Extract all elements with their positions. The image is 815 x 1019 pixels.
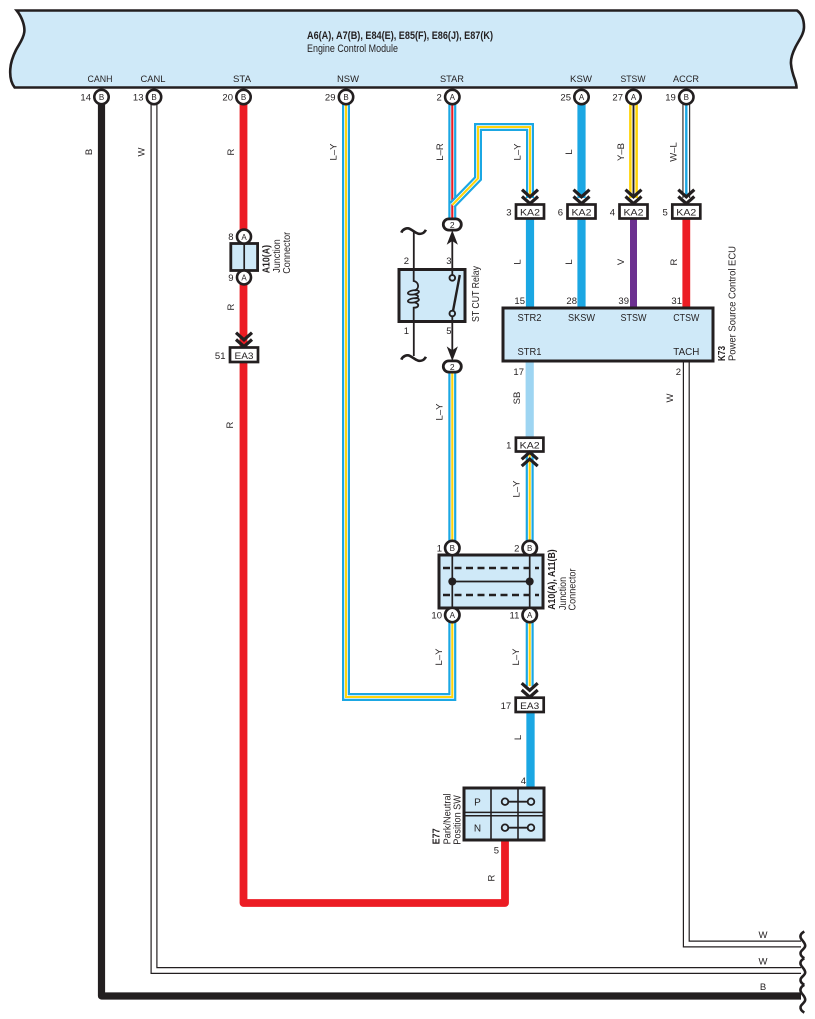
svg-text:A: A bbox=[450, 611, 456, 620]
chevrons above 17 EA3 bbox=[522, 683, 538, 697]
pin circle 9 A bbox=[228, 270, 251, 284]
break squiggle bottom bbox=[401, 355, 426, 360]
svg-text:EA3: EA3 bbox=[520, 701, 539, 712]
K73 Power Source Control ECU box bbox=[503, 308, 713, 361]
ECM pin circle 2 A bbox=[437, 90, 460, 104]
ECM pin circle 13 B bbox=[133, 90, 161, 104]
chevrons above 5 KA2 bbox=[678, 190, 694, 204]
relay switch blade bbox=[453, 275, 460, 311]
relay contact circle bottom bbox=[450, 311, 456, 317]
svg-text:KA2: KA2 bbox=[520, 208, 540, 219]
svg-text:STR1: STR1 bbox=[518, 347, 542, 358]
svg-text:KA2: KA2 bbox=[572, 208, 592, 219]
svg-text:2: 2 bbox=[437, 93, 442, 104]
svg-text:STA: STA bbox=[233, 74, 252, 85]
ECM pin circle 29 B bbox=[325, 90, 353, 104]
wire L 6 KA2 to SKSW bbox=[577, 218, 585, 308]
svg-text:A: A bbox=[241, 274, 247, 283]
svg-text:B: B bbox=[760, 982, 766, 993]
svg-text:Y–B: Y–B bbox=[616, 143, 627, 161]
svg-text:5: 5 bbox=[446, 326, 451, 337]
connector 1 KA2 bbox=[506, 438, 543, 452]
chevrons above 6 KA2 bbox=[574, 190, 590, 204]
wire L-Y 1 KA2 to junction connector pin 2 bbox=[526, 453, 534, 548]
svg-text:R: R bbox=[487, 874, 498, 881]
svg-text:N: N bbox=[474, 824, 481, 835]
svg-text:B: B bbox=[99, 93, 104, 102]
wire W CANL to bottom right bbox=[154, 100, 801, 971]
svg-text:STSW: STSW bbox=[621, 74, 646, 85]
break squiggle W CANL bbox=[800, 958, 805, 985]
ECM pin circle 20 B bbox=[222, 90, 250, 104]
relay switch pin 3 line bbox=[451, 270, 453, 275]
splice oval 2 bottom bbox=[443, 361, 461, 372]
svg-text:R: R bbox=[226, 303, 237, 310]
svg-text:2: 2 bbox=[450, 362, 455, 372]
svg-text:20: 20 bbox=[222, 93, 233, 104]
svg-text:R: R bbox=[669, 258, 680, 265]
svg-text:STSW: STSW bbox=[621, 313, 648, 324]
pin circle 11 A bbox=[510, 608, 537, 622]
wire L-Y NSW to junction connector pin 10 bbox=[346, 100, 452, 697]
svg-text:R: R bbox=[225, 421, 236, 428]
svg-text:3: 3 bbox=[446, 256, 451, 267]
wire W TACH to bottom right bbox=[686, 361, 801, 944]
wire L KSW to 6 KA2 bbox=[577, 100, 585, 198]
wire Y-B STSW to 4 KA2 bbox=[629, 100, 638, 198]
svg-text:31: 31 bbox=[671, 296, 682, 307]
wire B CANH to bottom right bbox=[102, 100, 802, 996]
relay coil bbox=[414, 270, 418, 291]
svg-text:Connector: Connector bbox=[568, 568, 579, 611]
wire SB STR1 to 1 KA2 bbox=[526, 361, 534, 440]
connector 4 KA2 bbox=[610, 205, 648, 219]
svg-text:6: 6 bbox=[558, 208, 563, 219]
contact P bbox=[505, 801, 531, 803]
chevrons above 4 KA2 bbox=[626, 190, 642, 204]
svg-text:5: 5 bbox=[663, 208, 668, 219]
svg-text:K73: K73 bbox=[717, 346, 728, 361]
svg-text:B: B bbox=[84, 149, 95, 155]
svg-text:W: W bbox=[665, 393, 676, 402]
svg-text:KA2: KA2 bbox=[520, 440, 540, 451]
svg-text:L: L bbox=[564, 259, 575, 264]
junction connector A10(A) on STA line bbox=[231, 244, 258, 271]
pin circle 8 A bbox=[228, 230, 251, 244]
wire R STA to E77 pin 5 bbox=[244, 100, 506, 903]
svg-text:CTSW: CTSW bbox=[673, 313, 699, 324]
svg-text:8: 8 bbox=[228, 232, 233, 243]
svg-text:A6(A), A7(B), E84(E), E85(F),: A6(A), A7(B), E84(E), E85(F), E86(J), E8… bbox=[307, 30, 493, 42]
svg-text:51: 51 bbox=[215, 351, 226, 362]
svg-text:27: 27 bbox=[612, 93, 623, 104]
svg-text:L–Y: L–Y bbox=[511, 648, 522, 666]
svg-text:EA3: EA3 bbox=[235, 351, 254, 362]
svg-text:A: A bbox=[579, 93, 585, 102]
svg-text:Engine Control Module: Engine Control Module bbox=[307, 43, 398, 55]
svg-text:B: B bbox=[450, 544, 455, 553]
chevrons above 3 KA2 bbox=[522, 190, 538, 204]
svg-text:KA2: KA2 bbox=[624, 208, 644, 219]
svg-text:A: A bbox=[241, 233, 247, 242]
relay coil wire lower with break bbox=[413, 308, 415, 356]
E77 Park/Neutral Position SW box bbox=[464, 788, 544, 840]
relay contact circle top bbox=[450, 275, 456, 281]
svg-text:4: 4 bbox=[610, 208, 615, 219]
svg-text:1: 1 bbox=[404, 326, 409, 337]
svg-text:2: 2 bbox=[676, 367, 681, 378]
svg-text:STR2: STR2 bbox=[518, 313, 542, 324]
pin circle 10 A bbox=[431, 608, 459, 622]
svg-text:Position SW: Position SW bbox=[452, 795, 463, 845]
svg-text:B: B bbox=[343, 93, 348, 102]
svg-text:29: 29 bbox=[325, 93, 336, 104]
chevrons below 1 KA2 pointing up bbox=[522, 452, 538, 466]
wire L-R STAR to splice 2 bbox=[448, 100, 456, 222]
connector 3 KA2 bbox=[506, 205, 544, 219]
wire L 3 KA2 to STR2 bbox=[526, 218, 534, 308]
ECM pin circle 19 B bbox=[665, 90, 693, 104]
svg-text:A10(A): A10(A) bbox=[262, 245, 273, 273]
svg-text:17: 17 bbox=[501, 701, 512, 712]
svg-text:L: L bbox=[513, 259, 524, 264]
svg-text:A: A bbox=[527, 611, 533, 620]
connector 17 EA3 bbox=[501, 698, 544, 712]
svg-text:CANH: CANH bbox=[88, 74, 113, 85]
relay pin5 line inside bbox=[451, 316, 453, 321]
svg-text:W: W bbox=[759, 930, 768, 941]
svg-text:3: 3 bbox=[506, 208, 511, 219]
svg-text:A: A bbox=[450, 93, 456, 102]
svg-text:11: 11 bbox=[510, 611, 520, 622]
svg-text:L–Y: L–Y bbox=[434, 648, 445, 666]
ST CUT relay box bbox=[399, 270, 465, 322]
svg-text:14: 14 bbox=[80, 93, 91, 104]
wire L-Y junction connector pin 11 to 17 EA3 bbox=[526, 615, 534, 686]
relay coil wire upper with break bbox=[413, 232, 415, 283]
svg-text:L–Y: L–Y bbox=[513, 143, 524, 161]
arrow down into splice 2 bbox=[447, 346, 458, 361]
connector 51 EA3 bbox=[215, 348, 258, 363]
pin circle 2 B bbox=[514, 541, 537, 555]
svg-text:19: 19 bbox=[665, 93, 676, 104]
wire L 17 EA3 to E77 pin 4 bbox=[526, 712, 534, 790]
connector 6 KA2 bbox=[558, 205, 596, 219]
break squiggle B CANH bbox=[800, 985, 805, 1013]
svg-text:KA2: KA2 bbox=[676, 208, 696, 219]
junction connector A10(A) A11(B) box bbox=[439, 555, 543, 608]
wire V 4 KA2 to STSW bbox=[630, 218, 637, 308]
connector 5 KA2 bbox=[663, 205, 701, 219]
svg-text:A: A bbox=[631, 93, 637, 102]
svg-text:5: 5 bbox=[494, 846, 499, 857]
svg-text:W–L: W–L bbox=[669, 142, 680, 162]
svg-text:1: 1 bbox=[437, 544, 442, 555]
svg-text:17: 17 bbox=[513, 367, 524, 378]
svg-text:L: L bbox=[564, 149, 575, 154]
ECM box A6/A7/E84-E87 Engine Control Module bbox=[10, 11, 804, 88]
arrow up into splice 2 bbox=[447, 230, 458, 245]
svg-text:Power Source Control ECU: Power Source Control ECU bbox=[728, 246, 739, 361]
svg-text:2: 2 bbox=[514, 544, 519, 555]
svg-text:CANL: CANL bbox=[141, 74, 166, 85]
svg-text:NSW: NSW bbox=[337, 74, 359, 85]
svg-text:KSW: KSW bbox=[570, 74, 592, 85]
svg-text:W: W bbox=[759, 957, 768, 968]
svg-text:10: 10 bbox=[431, 611, 442, 622]
ECM pin circle 25 A bbox=[560, 90, 588, 104]
svg-text:B: B bbox=[527, 544, 532, 553]
svg-text:E77: E77 bbox=[431, 828, 442, 844]
wire L-Y splice 2 to junction connector pin 1 bbox=[448, 373, 456, 548]
svg-text:SB: SB bbox=[512, 392, 523, 405]
svg-text:L–R: L–R bbox=[435, 143, 446, 161]
svg-text:B: B bbox=[684, 93, 689, 102]
ECM pin circle 27 A bbox=[612, 90, 640, 104]
chevrons above 51 EA3 bbox=[236, 333, 252, 347]
svg-text:L–Y: L–Y bbox=[329, 143, 340, 161]
relay pin 3 line to splice bbox=[451, 235, 453, 276]
svg-text:13: 13 bbox=[133, 93, 144, 104]
svg-text:P: P bbox=[474, 798, 481, 809]
svg-text:L–Y: L–Y bbox=[435, 403, 446, 421]
relay pin 5 line to splice bbox=[451, 316, 453, 352]
wire L-Y branch from splice to 3 KA2 bbox=[452, 127, 530, 205]
svg-text:L: L bbox=[513, 735, 524, 740]
svg-text:V: V bbox=[616, 258, 627, 265]
svg-text:1: 1 bbox=[506, 440, 511, 451]
wire R 5 KA2 to CTSW bbox=[682, 218, 690, 308]
svg-text:ACCR: ACCR bbox=[673, 74, 699, 85]
svg-text:B: B bbox=[241, 93, 246, 102]
svg-text:4: 4 bbox=[521, 776, 526, 787]
contact N bbox=[505, 827, 531, 829]
break squiggle top bbox=[401, 228, 426, 233]
break squiggle W TACH bbox=[800, 932, 805, 959]
svg-text:25: 25 bbox=[560, 93, 571, 104]
svg-text:W: W bbox=[137, 147, 148, 156]
svg-text:2: 2 bbox=[404, 256, 409, 267]
svg-text:TACH: TACH bbox=[673, 347, 699, 358]
splice oval 2 top bbox=[443, 219, 461, 230]
pin circle 1 B bbox=[437, 541, 460, 555]
svg-text:2: 2 bbox=[450, 220, 455, 230]
ECM pin circle 14 B bbox=[80, 90, 108, 104]
svg-text:B: B bbox=[151, 93, 156, 102]
svg-text:39: 39 bbox=[618, 296, 629, 307]
svg-text:R: R bbox=[226, 148, 237, 155]
svg-text:SKSW: SKSW bbox=[568, 313, 596, 324]
wire W-L ACCR to 5 KA2 bbox=[682, 100, 690, 198]
svg-text:28: 28 bbox=[566, 296, 577, 307]
svg-text:STAR: STAR bbox=[440, 74, 464, 85]
svg-text:L–Y: L–Y bbox=[512, 480, 523, 498]
svg-text:15: 15 bbox=[514, 296, 525, 307]
svg-text:ST CUT Relay: ST CUT Relay bbox=[471, 266, 482, 322]
svg-text:9: 9 bbox=[228, 273, 233, 284]
svg-text:Connector: Connector bbox=[282, 231, 293, 274]
svg-text:A10(A), A11(B): A10(A), A11(B) bbox=[547, 549, 558, 610]
